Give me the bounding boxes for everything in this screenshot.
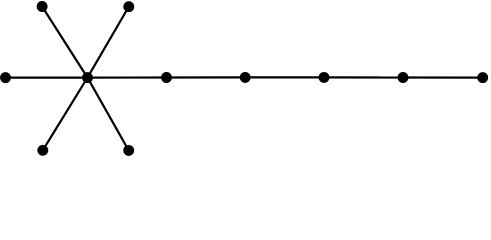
wire edge left-node to center hub (6, 76, 88, 78)
wire edge center hub to bottom-left node (43, 78, 88, 151)
node path P2 (240, 72, 251, 83)
node top-left leaf (37, 1, 48, 12)
node path P5 right end (477, 72, 488, 83)
node top-right leaf (123, 1, 134, 12)
node path P4 (398, 72, 409, 83)
wire edge path node P1 to P2 (167, 76, 246, 78)
wire edge center hub to path node P1 (88, 76, 167, 78)
node path P1 (161, 72, 172, 83)
wire edge center hub to top-right node (88, 7, 129, 78)
node left leaf (0, 72, 11, 83)
node center hub (82, 72, 93, 83)
wire edge center hub to bottom-right node (88, 78, 129, 151)
wire edge path node P4 to P5 (403, 76, 483, 78)
node bottom-left leaf (37, 145, 48, 156)
wire edge path node P2 to P3 (245, 76, 324, 78)
wire edge center hub to top-left node (42, 7, 87, 78)
node path P3 (319, 72, 330, 83)
wire edge path node P3 to P4 (324, 76, 403, 78)
node bottom-right leaf (123, 145, 134, 156)
